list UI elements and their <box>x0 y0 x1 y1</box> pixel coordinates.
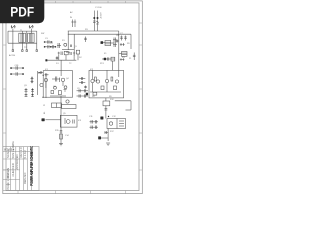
svg-text:C1 100: C1 100 <box>95 7 102 9</box>
svg-text:5.1.8.2: 5.1.8.2 <box>23 150 27 159</box>
svg-text:PAGE 1 OF 2: PAGE 1 OF 2 <box>6 173 10 190</box>
svg-text:AC250: AC250 <box>9 54 16 57</box>
svg-text:CHECKED: CHECKED <box>11 163 15 176</box>
svg-text:+B 50V: +B 50V <box>101 12 103 19</box>
svg-text:SW: SW <box>41 33 44 35</box>
svg-text:SIZE A3 DWG: SIZE A3 DWG <box>11 141 15 158</box>
svg-text:PDF: PDF <box>10 5 34 20</box>
svg-text:DWG NO: DWG NO <box>23 173 27 184</box>
svg-text:APPROVED: APPROVED <box>15 155 19 170</box>
svg-text:REV 2.0: REV 2.0 <box>19 147 23 158</box>
svg-text:POWER AMPLIFIER SCHEMATIC: POWER AMPLIFIER SCHEMATIC <box>29 146 34 186</box>
svg-text:SCALE: SCALE <box>6 149 10 158</box>
